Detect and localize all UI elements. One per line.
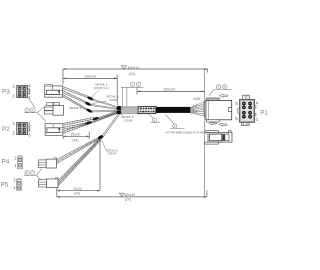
svg-text:ACTIVE WIRE 16AWG FLAT MATE: ACTIVE WIRE 16AWG FLAT MATE (166, 130, 207, 134)
svg-text:(2X): (2X) (125, 198, 131, 202)
svg-text:120±10: 120±10 (85, 75, 96, 79)
svg-text:(2X): (2X) (74, 192, 80, 196)
svg-text:25±10: 25±10 (71, 132, 80, 136)
svg-text:(4X): (4X) (72, 139, 78, 143)
note circles 3 4 left (24, 99, 47, 121)
svg-text:20±5: 20±5 (193, 97, 200, 101)
note circle 6 cable (166, 114, 185, 128)
flag and text 400±10 (2X) top (121, 66, 139, 76)
junction crimp upper (116, 106, 122, 110)
housing P2 wire side (45, 124, 63, 136)
wire hatch P2 band (65, 118, 97, 134)
wire splice to main junction (102, 114, 120, 138)
svg-text:P1: P1 (260, 109, 268, 116)
leader detail 5 (102, 140, 106, 150)
splice crimp on P3 wires 1 (87, 96, 94, 101)
bundle sleeve hatched (121, 107, 138, 113)
note circles 7 8 right (209, 85, 233, 96)
housing P5 wire side (38, 178, 58, 188)
connector P5 front view (16, 179, 21, 191)
leader detail b (92, 101, 107, 103)
wires P2 to splice (63, 112, 118, 133)
svg-text:200±10: 200±10 (164, 88, 175, 92)
wire hatch P3 band (63, 87, 87, 109)
svg-text:CRIMP: CRIMP (124, 118, 133, 122)
dimension top 400±10 (63, 69, 208, 85)
P3 pin labels (12, 84, 31, 100)
P2 pin labels (12, 121, 31, 138)
main cable black (156, 107, 191, 113)
svg-text:P5: P5 (1, 182, 9, 189)
label sleeve box (138, 106, 156, 113)
leader detail1 (92, 90, 100, 97)
dimension arrowheads (57, 68, 208, 198)
P1 pin labels (235, 101, 258, 123)
svg-text:400±10: 400±10 (128, 66, 140, 70)
P1 bottom view (204, 131, 232, 144)
wire hatch right fan (193, 104, 197, 114)
housing P3 wire side (45, 85, 63, 98)
svg-text:CRIMP: CRIMP (109, 98, 118, 102)
wire hatch P5 band (59, 141, 99, 184)
wires splices to junction (90, 99, 118, 112)
splice crimp on P2 wires 1 (92, 116, 99, 120)
wires P3 to splices (63, 86, 91, 111)
junction crimp lower (116, 110, 122, 114)
svg-text:P3: P3 (2, 88, 10, 95)
connector P4 front view (17, 156, 22, 169)
P1 pins (242, 102, 252, 119)
latch arrow bottom 1 (209, 122, 216, 125)
connector P1 front view (238, 95, 256, 125)
svg-text:400±10: 400±10 (125, 193, 136, 197)
extension line right (204, 69, 206, 197)
splice crimp on P2 wires 2 (85, 121, 92, 126)
note circles 1 2 top (121, 82, 144, 106)
P5 pin labels (13, 177, 16, 190)
svg-text:CRIMP: CRIMP (108, 152, 117, 156)
wires P4 to splice (56, 137, 99, 164)
splice crimp on P3 wires 3 (86, 108, 93, 113)
connector P3 front view (17, 85, 30, 97)
latch arrow top (220, 94, 228, 98)
dimension 120±10 (63, 75, 117, 106)
housing P4 wire side (38, 158, 56, 168)
note circle 5 label (149, 114, 160, 123)
connector P2 front view (17, 122, 30, 134)
housing detail2 middle (44, 102, 63, 115)
note circles 6 7 lower left (24, 169, 42, 181)
svg-text:P4: P4 (2, 159, 10, 166)
splice crimp P4 P5 junction (97, 134, 104, 140)
dimension 200±10 (137, 87, 205, 94)
svg-text:70±10: 70±10 (73, 187, 82, 191)
dimension 70±10 (2X) (57, 140, 100, 197)
P1 housing side view (204, 98, 232, 122)
svg-text:CRIMP(3-4): CRIMP(3-4) (94, 86, 109, 90)
svg-text:P2: P2 (2, 126, 10, 133)
wires P2 splices to junction (91, 111, 118, 123)
latch arrow bottom 2 (219, 123, 227, 126)
P4 pin labels (14, 155, 17, 167)
splice crimp on P3 wires 2 (85, 101, 92, 106)
svg-text:(2X): (2X) (129, 72, 135, 76)
leader detail 6 (120, 114, 123, 115)
wire hatch P4 band (58, 139, 95, 162)
dimension 25±10 (4X) (63, 131, 89, 139)
wires P5 to splice (58, 137, 101, 186)
flag and text 400±10 (2X) bottom (119, 193, 124, 196)
wires cable to P1 housing (190, 102, 204, 116)
dimension bottom 400±10 (2X) (57, 190, 207, 197)
